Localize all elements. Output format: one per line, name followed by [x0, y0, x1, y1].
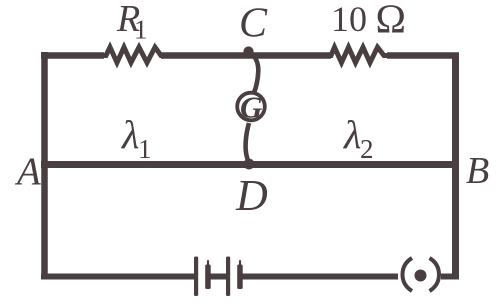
- svg-text:G: G: [240, 90, 263, 125]
- svg-text:B: B: [466, 150, 489, 192]
- svg-text:λ: λ: [343, 112, 361, 157]
- svg-text:C: C: [239, 1, 268, 47]
- svg-text:Ω: Ω: [376, 0, 406, 42]
- svg-text:λ: λ: [121, 112, 139, 157]
- svg-text:D: D: [235, 171, 268, 220]
- svg-text:10: 10: [331, 0, 367, 39]
- svg-text:1: 1: [134, 15, 148, 45]
- svg-text:A: A: [14, 150, 41, 193]
- svg-text:1: 1: [138, 134, 152, 164]
- svg-text:2: 2: [360, 134, 374, 164]
